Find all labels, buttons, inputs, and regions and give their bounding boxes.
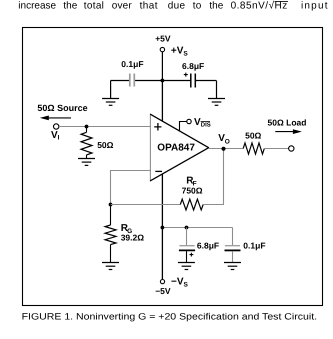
wire resistor to ground	[86, 155, 88, 159]
arrow to source (left)	[46, 117, 71, 119]
svg-text:50Ω Source: 50Ω Source	[37, 103, 87, 113]
supply rail through op amp	[161, 80, 163, 279]
terminal +Vs circle	[160, 47, 164, 51]
ground (top left)	[102, 99, 119, 106]
wire down to bottom 6.8uF	[186, 228, 188, 246]
wire feedback node down to Rg	[110, 205, 112, 226]
node top junction dot	[161, 79, 165, 83]
resistor Rg 39.2 ohm	[105, 225, 116, 245]
resistor Rf 750 ohm	[180, 199, 203, 210]
wire 6.8uF cap to right corner	[196, 80, 217, 82]
svg-text:750Ω: 750Ω	[182, 186, 203, 196]
wire junction to 6.8uF cap	[162, 80, 190, 82]
ground (bottom 0.1uF)	[224, 263, 241, 270]
svg-text:−5V: −5V	[155, 286, 171, 296]
svg-text:0.1μF: 0.1μF	[243, 240, 265, 250]
arrow to load (right)	[275, 131, 295, 133]
svg-text:0.1μF: 0.1μF	[121, 59, 143, 69]
svg-text:+5V: +5V	[155, 34, 171, 44]
wire left corner down to ground	[110, 81, 112, 99]
wire bottom 6.8uF to ground	[186, 251, 188, 262]
body text line (clipped at top)	[18, 1, 328, 12]
terminal Vi circle	[54, 124, 59, 129]
capacitor 0.1uF top plates	[129, 74, 131, 87]
svg-text:0.85nV/√Hz: 0.85nV/√Hz	[231, 1, 288, 12]
ground (bottom 6.8uF)	[178, 263, 195, 270]
svg-text:the: the	[63, 1, 77, 12]
figure border box	[23, 28, 323, 306]
svg-text:due: due	[168, 1, 186, 12]
svg-text:FIGURE 1. Noninverting G = +20: FIGURE 1. Noninverting G = +20 Specifica…	[22, 311, 318, 321]
wire bottom 0.1uF to ground	[232, 251, 234, 262]
capacitor 6.8uF top plates	[190, 74, 192, 88]
svg-text:increase: increase	[18, 1, 56, 12]
svg-text:39.2Ω: 39.2Ω	[121, 232, 145, 242]
svg-text:6.8μF: 6.8μF	[197, 240, 219, 250]
wire top rail left	[111, 80, 130, 82]
terminal Vdis circle	[187, 119, 191, 123]
ground (input termination)	[78, 159, 95, 166]
wire Vdis stub	[180, 122, 187, 132]
svg-text:the: the	[209, 1, 223, 12]
svg-text:to: to	[193, 1, 202, 12]
op-amp U1 OPA847 triangle	[150, 114, 208, 181]
node input junction dot	[85, 125, 89, 129]
wire junction to 50ohm resistor	[86, 127, 88, 133]
svg-text:O: O	[225, 139, 230, 146]
wire feedback node to Rf	[111, 204, 181, 206]
node bottom rail dot at 6.8uF	[185, 226, 189, 230]
capacitor 6.8uF bottom plates	[179, 245, 194, 247]
svg-text:DIS: DIS	[201, 122, 211, 129]
svg-text:50Ω Load: 50Ω Load	[268, 117, 307, 127]
terminal -Vs circle	[160, 280, 164, 284]
plus input symbol	[154, 123, 161, 131]
overline of sqrt Hz	[275, 0, 289, 3]
node output dot	[222, 147, 226, 151]
ground (Rg)	[102, 263, 119, 270]
wire Rg to ground	[110, 245, 112, 263]
svg-text:input: input	[301, 1, 329, 12]
capacitor 0.1uF bottom plates	[225, 245, 240, 247]
minus input symbol	[155, 170, 162, 172]
wire resistor to load terminal	[264, 148, 288, 150]
ground (top right)	[208, 99, 225, 106]
polarity plus of top 6.8uF	[184, 73, 188, 77]
svg-text:OPA847: OPA847	[157, 143, 195, 154]
wire between 0.1uF cap and junction	[135, 80, 163, 82]
resistor 50 ohm output	[243, 143, 264, 154]
svg-text:total: total	[84, 1, 104, 12]
wire Rf to output branch	[203, 149, 223, 205]
polarity plus of bottom 6.8uF	[190, 253, 194, 257]
svg-text:50Ω: 50Ω	[97, 140, 113, 150]
wire down to bottom 0.1uF	[232, 228, 234, 246]
svg-text:50Ω: 50Ω	[245, 131, 261, 141]
node bottom rail dot at supply	[161, 226, 165, 230]
wire Vi to noninverting input	[59, 126, 150, 128]
wire bottom rail	[162, 227, 232, 229]
resistor 50 ohm input termination	[81, 132, 92, 155]
wire +5V down to top junction	[161, 52, 163, 81]
wire inverting input L	[111, 171, 151, 205]
svg-text:that: that	[140, 1, 158, 12]
svg-text:over: over	[112, 1, 133, 12]
svg-text:6.8μF: 6.8μF	[182, 61, 204, 71]
wire right corner down to ground	[216, 81, 218, 99]
wire op amp output	[209, 148, 244, 150]
node feedback junction dot	[109, 203, 113, 207]
terminal load circle	[289, 146, 294, 151]
